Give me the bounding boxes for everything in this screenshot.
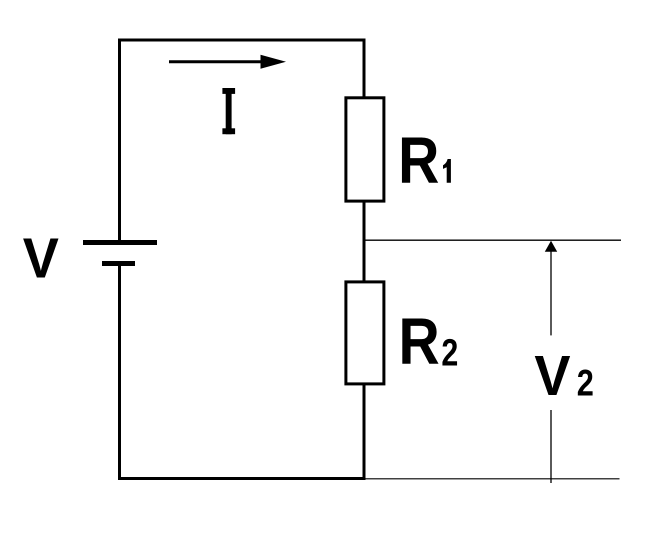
svg-text:R: R (399, 305, 440, 379)
label R1 (398, 124, 451, 198)
V2 measurement arrow (lower segment) (550, 410, 552, 483)
label V (source voltage) (23, 226, 59, 290)
node B: thin line extending bottom wire to V2 arrow (364, 478, 620, 480)
svg-text:R: R (398, 124, 439, 198)
label I (current) (222, 88, 235, 134)
wire: right vertical upper (top wire to R1) (363, 39, 366, 99)
label V2 (output voltage) (534, 344, 593, 408)
svg-text:2: 2 (577, 363, 594, 404)
wire: bottom horizontal return to battery (118, 477, 365, 480)
voltage source V (battery) (83, 243, 157, 264)
resistor R2 (346, 282, 384, 384)
label R2 (399, 305, 459, 379)
svg-text:V: V (23, 226, 59, 290)
wire: top horizontal from battery branch to R1 branch (118, 39, 366, 42)
node A: thin tap line from R1/R2 junction to V2 arrow (364, 239, 621, 241)
wire: right vertical lower (R2 to bottom wire) (363, 384, 366, 480)
svg-text:V: V (534, 344, 570, 408)
V2 measurement arrow (upper segment with arrowhead) (545, 241, 557, 336)
wire: right vertical middle (R1 to R2, node A) (363, 201, 366, 282)
svg-text:2: 2 (441, 332, 458, 374)
wire: left vertical lower (battery - terminal to bottom wire) (118, 266, 121, 480)
resistor R1 (346, 98, 384, 201)
wire: left vertical upper (battery + terminal to top wire) (118, 39, 121, 241)
current arrow I (169, 55, 286, 69)
